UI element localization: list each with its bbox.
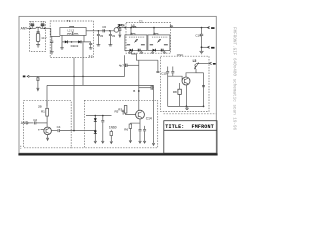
ground bbox=[97, 45, 101, 46]
capacitor C2 bbox=[41, 20, 45, 28]
wire base feed bbox=[168, 76, 182, 79]
wire supply bus riser bbox=[46, 85, 48, 106]
off-page arrow 3 bbox=[209, 62, 215, 64]
dashed separator above title block bbox=[164, 113, 217, 115]
inductor L1 bbox=[36, 27, 40, 28]
tank block A diode D3 bbox=[130, 49, 133, 52]
svg-text:L2 L3: L2 L3 bbox=[68, 28, 75, 32]
capacitor C23 small bbox=[122, 110, 125, 114]
diode D6 bbox=[94, 131, 97, 134]
tank block B side bar left bbox=[150, 44, 153, 46]
junction dot bbox=[124, 27, 126, 29]
wire antenna input bbox=[27, 27, 36, 29]
junction dot bbox=[30, 28, 32, 30]
wire to edge connector 2 bbox=[202, 46, 210, 48]
tank block B trimmer bbox=[157, 39, 160, 42]
capacitor C3 bbox=[37, 32, 40, 33]
svg-text:4p7: 4p7 bbox=[119, 64, 124, 68]
junction dot bbox=[201, 46, 203, 48]
transformer T1 secondary winding bbox=[74, 33, 78, 34]
tank block B diode D4 bbox=[153, 49, 156, 52]
capacitor C19 bypass bbox=[151, 86, 153, 90]
wire trimmer top to rail bbox=[196, 62, 209, 64]
transistor Q1 internals bbox=[46, 128, 49, 133]
capacitor C8 to ground bbox=[109, 31, 112, 45]
module box M1 (RF amp, dashed) bbox=[24, 101, 72, 148]
ground below bottom link bbox=[185, 106, 189, 109]
diode D2 bbox=[78, 40, 81, 43]
wire v153 down bbox=[153, 85, 155, 141]
ground bbox=[109, 45, 113, 46]
tank block B capacitor C12 bbox=[161, 49, 163, 52]
wire bypass to rail bbox=[152, 87, 155, 89]
capacitor C27 bbox=[202, 85, 205, 86]
junction dot bbox=[102, 115, 104, 117]
junction dot bbox=[44, 28, 46, 30]
tank block A tab label bbox=[131, 31, 135, 35]
off-page arrow 2 bbox=[207, 46, 214, 49]
wire from pin bbox=[28, 122, 33, 124]
wire diode column bbox=[94, 116, 96, 139]
ground bbox=[139, 139, 142, 143]
capacitor C5 to ground bbox=[89, 42, 92, 48]
transistor Q3 internals bbox=[184, 78, 188, 83]
wire right column top link bbox=[196, 72, 204, 74]
wire resonator to ground bbox=[37, 42, 39, 45]
capacitor C21 in series bbox=[58, 129, 60, 132]
wire AGC bus bbox=[29, 75, 125, 77]
svg-text:D1D2: D1D2 bbox=[71, 44, 79, 48]
transistor Q1 bbox=[44, 127, 52, 135]
wire R1 to base node bbox=[46, 116, 48, 127]
junction dot bbox=[119, 27, 121, 29]
capacitor C25 to ground bbox=[143, 126, 146, 139]
tank block A stub to rail bbox=[130, 28, 132, 35]
svg-text:R3: R3 bbox=[118, 107, 122, 111]
junction dot bbox=[186, 106, 188, 108]
wire bottom link bbox=[168, 105, 204, 107]
wire to box edge bbox=[40, 27, 50, 29]
svg-text:2B: 2B bbox=[38, 104, 42, 108]
junction dot bbox=[71, 41, 73, 43]
svg-text:33: 33 bbox=[112, 34, 116, 38]
ground stub left of rail bbox=[60, 42, 64, 49]
resonator X1 bbox=[36, 33, 40, 41]
junction dot bbox=[203, 106, 205, 108]
wire to mixer module bbox=[60, 130, 96, 132]
node bus left terminal bbox=[23, 75, 29, 77]
drawing frame bbox=[19, 16, 216, 153]
ground below block A left bbox=[128, 51, 131, 54]
svg-text:C6: C6 bbox=[102, 25, 106, 29]
junction dot bbox=[109, 30, 111, 32]
junction dot bbox=[153, 27, 155, 29]
transformer T1 core bbox=[71, 32, 74, 35]
wire main RF rail right bbox=[119, 27, 210, 29]
antenna pin circle J1 bbox=[26, 122, 28, 124]
wire jog into transformer bbox=[51, 28, 60, 36]
resistor R7 column bbox=[110, 130, 113, 144]
resistor R6 emitter bbox=[124, 123, 140, 143]
ground below block B right bbox=[163, 51, 166, 54]
capacitor C1 bbox=[30, 20, 34, 28]
tank block A winding dots bbox=[129, 36, 144, 38]
capacitor C17 to ground arrow bbox=[36, 76, 40, 90]
diode D5 bbox=[94, 118, 97, 121]
capacitor C20 in series bbox=[34, 121, 36, 124]
svg-text:C2: C2 bbox=[33, 118, 37, 122]
tank block B side bar right bbox=[164, 44, 168, 46]
tank block B tab label bbox=[154, 31, 158, 35]
transistor Q2 bbox=[136, 110, 145, 119]
resistor R1 bbox=[46, 108, 49, 116]
resistor R8 bbox=[178, 83, 181, 106]
junction dot bbox=[73, 130, 75, 132]
svg-text:1N60: 1N60 bbox=[109, 126, 117, 130]
ground bbox=[143, 139, 146, 143]
ground bbox=[36, 45, 40, 48]
tank block B outline bbox=[148, 35, 170, 51]
wire stub down to resonator bbox=[37, 28, 39, 31]
tank block A side bar left bbox=[127, 44, 130, 46]
svg-text:2p: 2p bbox=[170, 24, 174, 28]
wire emitter down bbox=[139, 119, 141, 129]
wire upper rail in M2 bbox=[86, 115, 112, 117]
svg-text:ANT: ANT bbox=[21, 26, 27, 30]
capacitor C18 coupling bbox=[156, 71, 159, 72]
ground bbox=[50, 52, 54, 54]
capacitor C15 bbox=[166, 67, 169, 107]
junction dot bbox=[73, 76, 75, 78]
tank block B stub to rail bbox=[153, 28, 155, 35]
junction dot bbox=[130, 27, 132, 29]
capacitor C9 to ground arrow bbox=[118, 28, 121, 38]
svg-text:3.3: 3.3 bbox=[89, 54, 93, 58]
capacitor C22 column bbox=[101, 116, 104, 139]
capacitor C4 to ground bbox=[50, 36, 53, 51]
wire branch to bypass cap bbox=[139, 87, 151, 89]
svg-text:T2: T2 bbox=[139, 19, 143, 23]
junction dot bbox=[82, 76, 84, 78]
wire emitter column bbox=[185, 85, 187, 106]
module box M3 (oscillator, dashed) bbox=[161, 56, 210, 111]
off-page arrow 1 bbox=[207, 26, 214, 29]
capacitor C10 in series bbox=[119, 64, 139, 68]
svg-text:C4: C4 bbox=[57, 125, 61, 129]
wire supply bus bbox=[47, 84, 154, 86]
wire vertical feed v2 bbox=[82, 42, 84, 85]
transistor Q3 bbox=[182, 77, 190, 85]
svg-text:C16: C16 bbox=[195, 34, 201, 38]
transistor Q2 internals bbox=[138, 112, 142, 118]
svg-text:T1: T1 bbox=[67, 19, 71, 23]
wire mixer input bbox=[94, 30, 115, 32]
tank block A outline bbox=[125, 35, 147, 51]
svg-text:33: 33 bbox=[100, 34, 104, 38]
wire emitter to ground arrow bbox=[46, 135, 48, 141]
svg-text:C14: C14 bbox=[146, 117, 152, 121]
transformer T1 can tab bbox=[70, 27, 74, 28]
junction dot bbox=[98, 30, 100, 32]
module box M2 (IF/mixer, dashed) bbox=[84, 100, 157, 148]
svg-text:R8: R8 bbox=[173, 90, 177, 94]
ground below block A right bbox=[140, 51, 143, 54]
junction dot bbox=[138, 90, 140, 92]
wire collector link bbox=[186, 73, 196, 77]
ground bbox=[199, 51, 203, 54]
dashed gap filler between M1 and M2 bottoms bbox=[71, 147, 84, 149]
frame bottom heavy border bbox=[18, 153, 217, 155]
wire diode rail bbox=[62, 41, 91, 43]
shield box SH1 (input filter, dashed) bbox=[30, 21, 46, 51]
svg-text:10.7: 10.7 bbox=[41, 36, 47, 40]
svg-text:L5: L5 bbox=[193, 59, 197, 63]
wire vertical feed v1 bbox=[73, 58, 75, 131]
mixer node circle K1 bbox=[114, 28, 119, 33]
wire cap to base bbox=[36, 122, 47, 124]
svg-text:TITLE:: TITLE: bbox=[165, 124, 184, 130]
transformer T1 primary winding bbox=[67, 33, 71, 34]
svg-text:C8: C8 bbox=[121, 23, 125, 27]
trimmer L5 bbox=[194, 63, 199, 69]
svg-text:C15: C15 bbox=[161, 72, 167, 76]
dashed left tick near frame bottom bbox=[20, 146, 22, 149]
wire stub can to rail right bbox=[83, 36, 85, 42]
capacitor C6 in series bbox=[102, 25, 106, 32]
ground bbox=[152, 141, 155, 145]
wire trimmer down to collector bbox=[195, 69, 197, 73]
shield box SH2 (band filter, dashed) bbox=[50, 21, 93, 58]
svg-text:FMFRONT.GIF 640x480 schematic: FMFRONT.GIF 640x480 schematic scan 19-96 bbox=[231, 27, 236, 131]
tank block A trimmer bbox=[134, 39, 137, 42]
svg-text:R6: R6 bbox=[124, 128, 128, 132]
title block bbox=[164, 121, 217, 154]
wire staircase from tank A bbox=[132, 50, 158, 60]
inductor L4 bbox=[131, 26, 136, 27]
ground bbox=[89, 48, 93, 49]
emitter label mark bbox=[38, 128, 44, 132]
tank block A side bar right bbox=[141, 44, 145, 46]
junction dot bbox=[95, 115, 97, 117]
junction dot bbox=[95, 130, 97, 132]
tank block A capacitor C11 bbox=[138, 49, 140, 52]
tank block B winding dots bbox=[152, 36, 167, 38]
svg-text:OSC: OSC bbox=[177, 53, 184, 57]
svg-text:R1: R1 bbox=[41, 109, 45, 113]
capacitor C16 to ground bbox=[195, 28, 203, 52]
capacitor C24 to ground bbox=[139, 130, 142, 140]
wire out of transformer bbox=[86, 30, 93, 32]
wire stub can to rail left bbox=[61, 36, 63, 42]
ground bbox=[102, 139, 105, 143]
wire tank tap drop bbox=[124, 55, 126, 76]
ground below block B left bbox=[151, 51, 154, 54]
junction dot bbox=[201, 27, 203, 29]
transformer T1 can bbox=[60, 28, 86, 36]
capacitor C7 to ground bbox=[97, 31, 100, 45]
wire R1 top bbox=[46, 101, 48, 109]
resistor R3 bbox=[124, 106, 127, 114]
svg-text:B: B bbox=[133, 89, 135, 93]
mixer arrow mark bbox=[117, 24, 119, 28]
capacitor C26 bbox=[171, 67, 174, 77]
svg-text:FMFRONT: FMFRONT bbox=[192, 124, 214, 130]
diode D1 bbox=[65, 40, 68, 43]
ground bbox=[94, 139, 97, 143]
wire osc coupling drop bbox=[157, 60, 159, 71]
wire collector feed drop bbox=[138, 60, 140, 110]
wire collector out bbox=[51, 130, 57, 132]
shield box SH3 (tuned circuits, dashed) bbox=[126, 23, 171, 54]
wire R3 to base bbox=[126, 113, 136, 115]
wire right column bbox=[203, 73, 205, 107]
